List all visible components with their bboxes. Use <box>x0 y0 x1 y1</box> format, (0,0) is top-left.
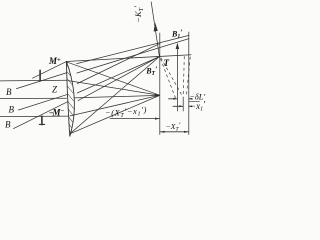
svg-text:−XT′: −XT′ <box>166 121 181 133</box>
dimension x1' row <box>173 105 183 107</box>
wire oblique ray O1 from B top <box>17 73 68 89</box>
wire horizontal ray H3 <box>0 115 70 118</box>
wire dashed D3 vertical <box>183 57 184 97</box>
wire dashed D4 vertical <box>186 57 190 97</box>
node plane V3 <box>188 32 190 135</box>
wire dashed D2 from T <box>161 58 183 97</box>
wire refracted ray A lens top to B1' plane <box>77 35 189 63</box>
wire oblique ray O3 from B bottom <box>14 100 71 128</box>
wire ray H3 refracted to axial focus <box>70 95 160 116</box>
vector -KT' line <box>151 2 159 57</box>
node image plane V1 <box>159 33 161 135</box>
wire dashed D1 from T <box>161 59 176 100</box>
lens L1 body <box>66 61 74 137</box>
dimension line XT' bottom <box>160 131 188 133</box>
wire refracted ray Rd to T <box>77 57 159 93</box>
svg-text:B: B <box>5 120 11 130</box>
lens hatching <box>67 65 74 132</box>
svg-text:B: B <box>9 105 15 115</box>
wire horizontal ray H1 <box>0 79 68 82</box>
svg-text:B: B <box>6 87 12 97</box>
wire horizontal axis ray H2 <box>0 97 67 99</box>
leader line for M- label <box>50 112 54 114</box>
wire refracted ray B to B1' plane <box>77 39 189 73</box>
node tick mark upper <box>39 70 41 81</box>
wire refracted ray Re to T <box>78 57 159 101</box>
node tick mark lower <box>41 116 43 124</box>
wire marginal ray Rf lens bottom to T <box>70 57 159 134</box>
dimension line (XT'-x1') <box>110 118 159 120</box>
wire ray H1 refracted to axial focus <box>68 81 160 96</box>
wire ray Rg lens top to axial focus <box>66 62 159 95</box>
arrowhead on -KT' vector <box>154 23 158 32</box>
node plane V2 with B1' arrow stem <box>176 45 178 112</box>
wire ray Rh lens bottom to axial focus <box>70 95 160 133</box>
dimension deltaL' row <box>169 98 178 100</box>
wire refracted ray C to node K1 <box>77 43 160 83</box>
arrowhead B1' pointing up <box>176 43 180 49</box>
wire steep ray S1 into lens top <box>33 62 67 79</box>
node short plane V4 <box>182 97 184 111</box>
wire oblique ray O2 from B middle <box>19 94 69 110</box>
wire ray Ra lens top tip through T to V3 <box>66 55 191 62</box>
arrowhead at axial focus on V1 <box>155 94 160 97</box>
wire axis continuation to focus <box>74 95 158 98</box>
svg-text:T: T <box>164 58 170 68</box>
